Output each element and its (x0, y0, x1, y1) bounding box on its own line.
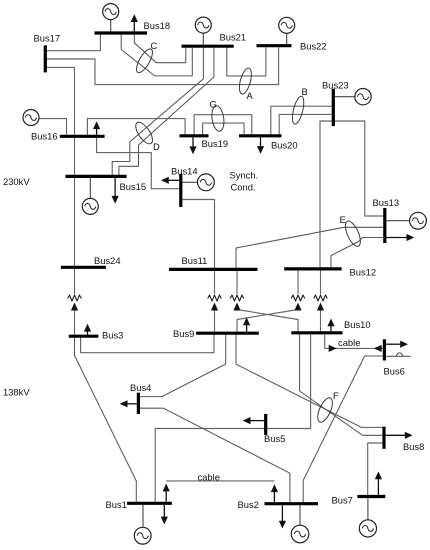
svg-text:Bus19: Bus19 (202, 138, 229, 149)
svg-text:Bus2: Bus2 (238, 499, 259, 510)
bus bar Bus24 (61, 266, 106, 269)
synchronous condenser at Bus14 (198, 174, 215, 191)
interface ellipse D (133, 120, 156, 147)
generator at Bus16 (23, 110, 39, 126)
wire transformer line 3-24 lower (74, 311, 76, 335)
svg-text:Bus15: Bus15 (120, 181, 147, 192)
wire line 16-19 (87, 119, 185, 135)
wire line 12-13 through E (331, 238, 383, 268)
interface ellipse C (133, 47, 155, 75)
bus bar Bus19 (180, 134, 209, 137)
svg-text:B: B (302, 86, 308, 97)
wire line 15-24 (74, 178, 76, 266)
svg-text:230kV: 230kV (3, 176, 30, 187)
svg-text:Bus23: Bus23 (322, 80, 349, 91)
wire transformer line 9-11 lower (214, 311, 216, 332)
svg-text:Bus14: Bus14 (171, 165, 198, 176)
generator at Bus21 (195, 17, 211, 33)
svg-text:Bus17: Bus17 (34, 33, 61, 44)
bus bar Bus9 (196, 332, 259, 335)
wire generator stub at Bus16 (39, 119, 66, 135)
wire line 20-23 circuit 2 through B (279, 114, 333, 134)
interface ellipse A (237, 67, 254, 95)
svg-text:Cond.: Cond. (231, 181, 256, 192)
bus bar Bus20 (239, 134, 282, 137)
wire transformer line 3-24 upper (74, 269, 76, 294)
svg-text:Bus7: Bus7 (332, 495, 353, 506)
svg-text:Bus4: Bus4 (130, 382, 151, 393)
wire transformer line 9-12 crossing (237, 271, 298, 332)
svg-text:Bus16: Bus16 (31, 131, 58, 142)
wire line 13-23 (333, 121, 383, 216)
wire line 4-9 (138, 335, 225, 397)
wire line 8-10 through F (300, 334, 383, 435)
wire line 21-22 through A (227, 47, 266, 76)
wire line 19-20 circuit 2 (203, 123, 245, 134)
wire generator stub at Bus2 (299, 505, 301, 525)
bus bar Bus2 (265, 502, 319, 505)
wire generator stub at Bus7 (367, 498, 369, 520)
wire generator stub at Bus1 (142, 505, 144, 527)
load arrow at Bus6 (386, 341, 408, 348)
bus bar Bus4 (137, 393, 140, 414)
svg-text:Bus3: Bus3 (102, 330, 123, 341)
interface ellipse B (290, 95, 306, 125)
wire line 15-21 circuit 2 through D (119, 48, 214, 175)
wire line 15-21 circuit 1 through D (112, 48, 203, 175)
wire line 1-3 (75, 338, 137, 502)
svg-text:Bus22: Bus22 (300, 41, 327, 52)
wire synchronous condenser stub at Bus14 (182, 181, 197, 183)
svg-text:C: C (151, 40, 158, 51)
wire line 11-13 through E (236, 227, 383, 268)
bus bar Bus10 (291, 331, 342, 334)
bus bar Bus6 (383, 339, 386, 360)
svg-text:Bus5: Bus5 (264, 433, 285, 444)
load arrow at Bus15 (112, 178, 119, 204)
wire transformer line 9-11 upper (214, 271, 216, 294)
transformer arrow 10-11 (233, 303, 240, 311)
interface ellipse G (210, 105, 225, 132)
wire generator stub at Bus18 (110, 20, 112, 32)
transformer arrow 3-24 (71, 303, 78, 311)
svg-text:cable: cable (198, 472, 220, 483)
svg-text:F: F (333, 390, 339, 401)
svg-text:138kV: 138kV (3, 387, 30, 398)
wire line 19-20 circuit 1 through G (194, 115, 252, 135)
load arrow at Bus9 (243, 317, 250, 331)
wire line 2-6 (303, 356, 384, 502)
interface ellipse F (315, 396, 336, 424)
transformer arrow 9-12 (294, 303, 301, 311)
load arrow at Bus4 (120, 400, 137, 407)
load arrow at Bus18 (131, 14, 138, 33)
generator at Bus7 (359, 520, 376, 537)
bus bar Bus11 (169, 268, 258, 271)
cable arrow near Bus6 (374, 345, 382, 352)
cable arrow at Bus1 (163, 484, 170, 502)
svg-text:Bus12: Bus12 (350, 266, 377, 277)
generator at Bus22 (279, 17, 295, 33)
bus bar Bus8 (382, 427, 385, 449)
cable arrow near Bus10 (329, 345, 337, 352)
svg-text:Synch.: Synch. (230, 170, 259, 181)
wire reactor at Bus6 (386, 353, 411, 357)
bus bar Bus15 (66, 175, 127, 178)
cable arrow at Bus2 (271, 484, 278, 502)
wire line 3-9 (81, 335, 214, 353)
load arrow at Bus8 (386, 432, 413, 439)
svg-text:Bus20: Bus20 (271, 140, 298, 151)
svg-text:Bus21: Bus21 (220, 32, 247, 43)
generator at Bus23 (355, 89, 371, 105)
generator at Bus13 (410, 212, 427, 229)
wire line 16-17 (45, 67, 74, 134)
wire line 12-23 (320, 121, 333, 267)
wire generator stub at Bus21 (202, 33, 204, 45)
bus bar Bus16 (60, 135, 105, 138)
transformer zigzag 3-24 (68, 295, 82, 301)
wire line 5-10 and 1-5 (155, 334, 310, 501)
load arrow at Bus1 (161, 505, 168, 524)
generator at Bus18 (103, 4, 119, 20)
load arrow at Bus7 (375, 471, 382, 495)
bus bar Bus5 (264, 414, 267, 435)
svg-text:Bus1: Bus1 (106, 499, 127, 510)
wire line 18-21 circuit 1 through C (134, 34, 186, 62)
wire line 11-14 (181, 200, 215, 269)
wire line 20-23 circuit 1 through B (271, 106, 334, 134)
generator at Bus15 (82, 198, 98, 214)
load arrow at Bus2 (279, 505, 286, 528)
wire line 14-16 (97, 138, 180, 189)
bus bar Bus14 (179, 174, 182, 207)
transformer zigzag 10-11 (230, 295, 244, 301)
svg-text:E: E (340, 214, 346, 225)
interface ellipse E (342, 219, 363, 248)
bus bar Bus17 (44, 45, 47, 72)
svg-text:Bus11: Bus11 (182, 255, 208, 266)
wire generator stub at Bus13 (386, 220, 409, 222)
svg-text:A: A (247, 90, 254, 101)
bus bar Bus22 (257, 44, 292, 47)
svg-text:Bus9: Bus9 (173, 328, 194, 339)
wire line 7-8 (368, 443, 383, 495)
transformer arrow 10-12 (317, 303, 324, 311)
wire generator stub at Bus23 (335, 96, 355, 98)
generator at Bus1 (134, 527, 151, 544)
transformer arrow 9-11 (211, 303, 218, 311)
svg-text:Bus8: Bus8 (403, 441, 424, 452)
bus bar Bus23 (332, 89, 335, 126)
svg-text:Bus13: Bus13 (373, 197, 400, 208)
wire line 17-22 (45, 47, 278, 84)
load arrow at Bus10 (327, 319, 334, 332)
load arrow at Bus5 (243, 417, 264, 424)
wire transformer line 10-11 crossing (237, 271, 298, 331)
svg-text:D: D (153, 141, 160, 152)
svg-text:cable: cable (338, 337, 360, 348)
wire cable line 1-2 (166, 480, 274, 482)
wire generator stub at Bus22 (286, 34, 288, 45)
transformer zigzag 9-12 (291, 295, 305, 301)
load arrow at Bus20 (257, 137, 264, 154)
svg-text:Bus18: Bus18 (144, 20, 171, 31)
svg-text:Bus10: Bus10 (344, 319, 371, 330)
bus bar Bus21 (182, 45, 234, 48)
bus bar Bus7 (357, 495, 385, 498)
svg-text:G: G (210, 99, 217, 110)
wire line 18-21 circuit 2 through C (121, 34, 192, 76)
transformer zigzag 10-12 (314, 295, 328, 301)
transformer zigzag 9-11 (208, 295, 222, 301)
bus bar Bus18 (95, 31, 148, 34)
generator at Bus2 (291, 525, 309, 543)
load arrow at Bus13 (385, 234, 415, 241)
wire generator stub at Bus15 (89, 178, 91, 198)
wire line 2-4 (138, 408, 290, 502)
load arrow at Bus16 (93, 121, 100, 134)
load arrow at Bus19 (189, 137, 196, 154)
wire line 15-16 (74, 138, 76, 175)
bus bar Bus3 (69, 335, 99, 338)
bus bar Bus13 (383, 208, 386, 243)
wire line 17-18 (45, 35, 100, 51)
svg-text:Bus24: Bus24 (94, 255, 121, 266)
wire line 8-9 through F (236, 335, 382, 428)
svg-text:Bus6: Bus6 (384, 366, 405, 377)
wire transformer line 10-12 (320, 271, 322, 332)
load arrow at Bus14 (161, 177, 179, 184)
load arrow at Bus3 (84, 324, 91, 335)
wire cable line 6-10 (325, 334, 383, 348)
bus bar Bus12 (284, 267, 341, 270)
bus bar Bus1 (127, 502, 172, 505)
